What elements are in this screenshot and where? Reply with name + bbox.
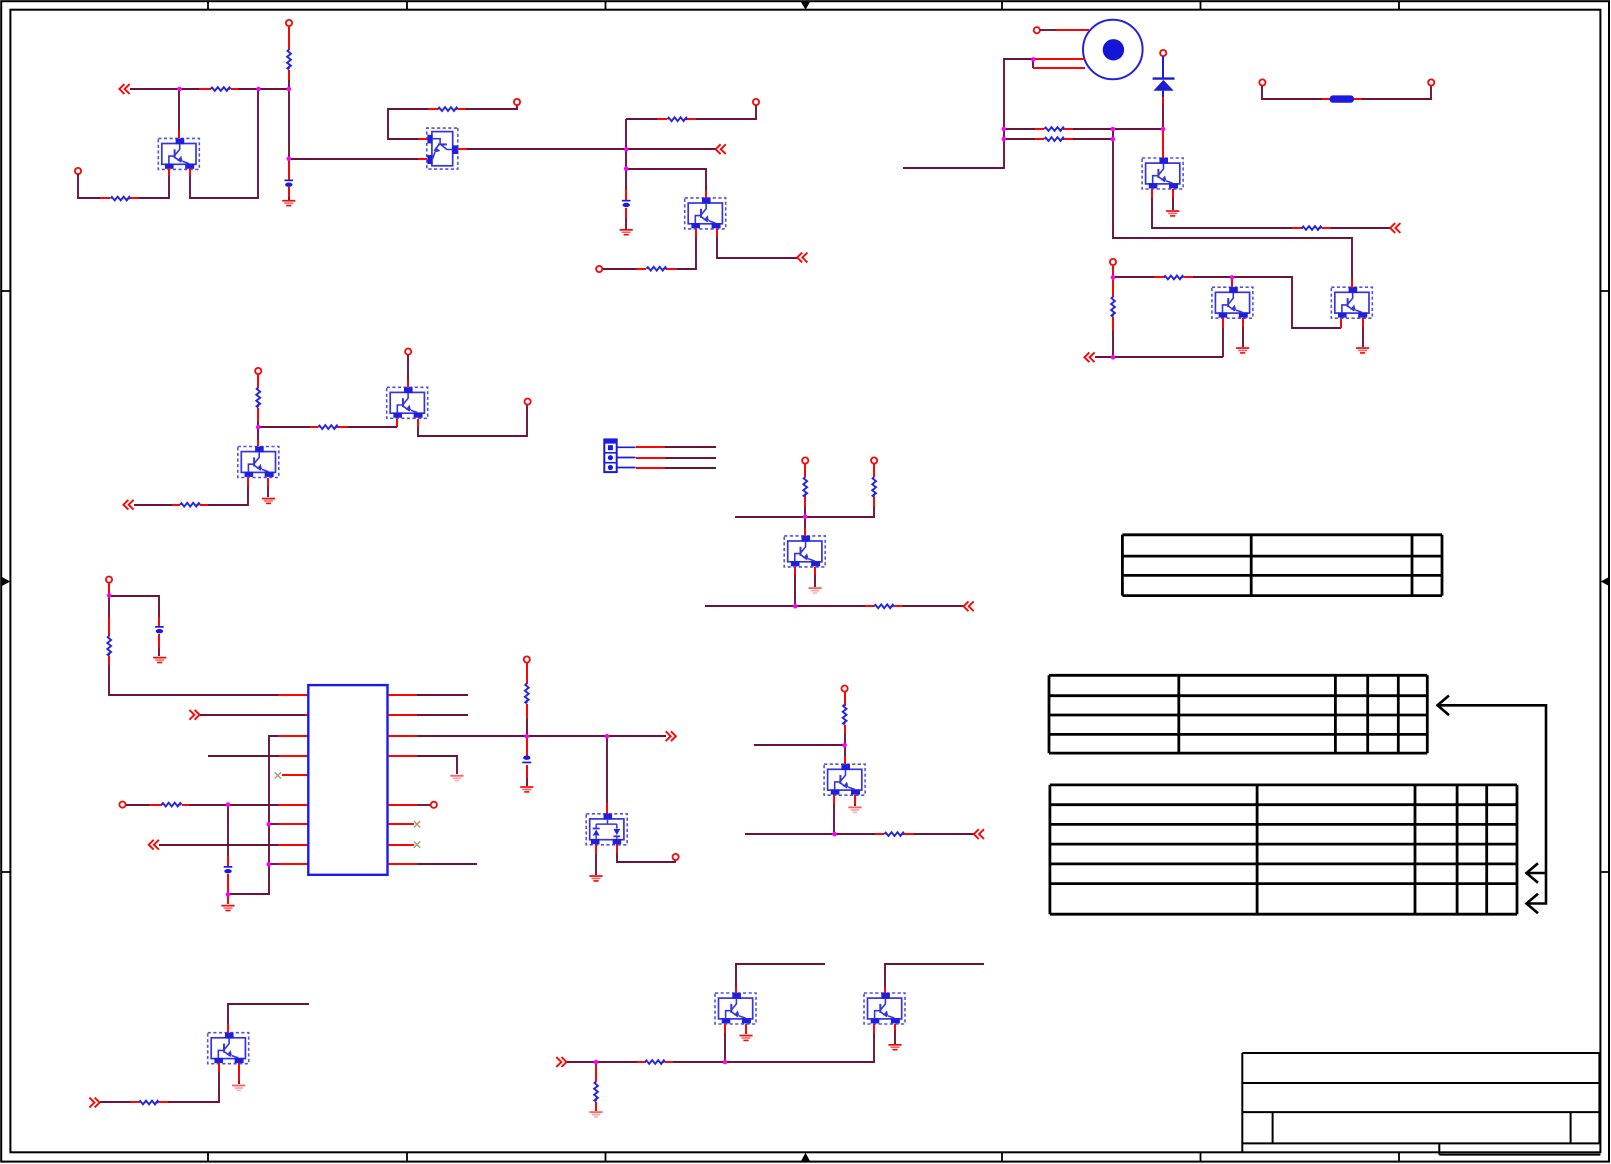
wire — [1113, 276, 1154, 278]
port P18 — [1160, 50, 1166, 56]
wire — [257, 421, 259, 427]
pin — [526, 663, 528, 684]
wire — [417, 735, 666, 737]
wire — [1113, 129, 1352, 279]
wire — [1040, 29, 1056, 31]
pin — [159, 1101, 168, 1103]
connector pin 2 — [617, 457, 636, 459]
motor M1 — [1083, 20, 1143, 80]
pin — [199, 88, 211, 90]
pin — [745, 1024, 747, 1034]
black pointer polyline from tables — [1438, 705, 1546, 903]
pin — [267, 478, 269, 487]
wire — [625, 119, 627, 189]
wire — [208, 487, 248, 505]
junction — [226, 892, 231, 897]
pin — [396, 419, 398, 427]
pin — [804, 497, 806, 507]
wire — [257, 427, 259, 440]
junction — [803, 514, 808, 519]
pin — [1354, 98, 1362, 100]
wire — [665, 457, 716, 459]
wire — [1004, 128, 1035, 130]
port P21 — [1110, 259, 1116, 265]
pin — [231, 88, 238, 90]
wire — [267, 487, 269, 497]
pin — [458, 148, 467, 150]
wire — [238, 88, 289, 90]
wire — [158, 648, 160, 656]
ground — [1356, 347, 1369, 354]
border centre arrow right — [1601, 577, 1609, 586]
lower table — [1050, 785, 1517, 914]
pin — [238, 1063, 240, 1081]
pin — [1222, 318, 1224, 328]
ground (pink) — [232, 1085, 245, 1092]
transistor Q2 (rotated) — [427, 128, 458, 169]
ground — [589, 875, 602, 882]
pin — [108, 656, 110, 665]
junction — [1031, 57, 1036, 62]
resistor R23 — [139, 1100, 159, 1104]
wire — [134, 504, 172, 506]
pin — [189, 168, 191, 176]
pin — [625, 189, 627, 200]
wire — [139, 176, 169, 198]
off-page connector left — [716, 144, 726, 154]
pin — [844, 756, 846, 764]
wire — [745, 833, 834, 835]
pin — [1322, 98, 1330, 100]
pin — [735, 987, 737, 993]
pin — [526, 704, 528, 718]
port P16 — [842, 686, 848, 692]
pin — [278, 735, 308, 737]
off-page connector left — [964, 601, 974, 611]
wire — [228, 1004, 309, 1024]
junction — [793, 604, 798, 609]
wire — [625, 218, 627, 229]
pin — [844, 692, 846, 706]
junction — [107, 593, 112, 598]
pin — [278, 714, 308, 716]
pin — [873, 497, 875, 507]
pin — [1292, 227, 1303, 229]
port P3 — [514, 99, 520, 105]
wire — [696, 105, 756, 119]
border zone ticks top — [208, 1, 1399, 10]
pin — [1351, 279, 1353, 288]
off-page connector left — [1084, 352, 1094, 362]
wire — [1362, 86, 1431, 99]
pin — [595, 1062, 597, 1082]
pin — [636, 268, 646, 270]
pin — [100, 197, 110, 199]
port P19 — [1259, 79, 1265, 85]
pin — [388, 844, 414, 846]
wire — [238, 1081, 240, 1084]
wire — [1262, 86, 1322, 99]
port P5 — [596, 266, 602, 272]
resistor R22 — [1111, 297, 1115, 317]
pin — [227, 1024, 229, 1033]
transistor Q10 — [1331, 287, 1372, 318]
pin — [1112, 317, 1114, 331]
port P13 — [673, 854, 679, 860]
wire — [914, 833, 974, 835]
wire — [567, 1061, 637, 1063]
diode D2 — [1153, 56, 1175, 97]
wire — [834, 833, 875, 835]
black arrowhead at lower table row6 — [1527, 894, 1539, 914]
junction — [1002, 127, 1007, 132]
ground — [1166, 210, 1179, 217]
wire — [159, 844, 278, 846]
port P9 — [106, 577, 112, 583]
transistor Q6 — [784, 536, 825, 567]
wire — [78, 174, 100, 198]
resistor R17 — [884, 832, 904, 836]
resistor R24 — [594, 1082, 598, 1102]
pin — [616, 844, 618, 853]
wire — [854, 804, 856, 806]
port P2 — [75, 168, 81, 174]
ground — [282, 200, 295, 207]
resistor R12 — [524, 684, 528, 704]
junction — [624, 147, 629, 152]
wire — [1032, 59, 1034, 68]
resistor R5 — [667, 117, 687, 121]
pin — [338, 426, 348, 428]
pin — [1162, 130, 1164, 158]
pin — [833, 795, 835, 804]
wire — [388, 109, 428, 139]
junction — [266, 822, 271, 827]
wire — [794, 575, 796, 606]
ground — [153, 657, 166, 664]
off-page connector left — [1390, 223, 1400, 233]
wire — [407, 355, 409, 381]
port P20 — [1428, 79, 1434, 85]
pin — [278, 863, 308, 865]
resistor R1 — [211, 87, 231, 91]
port P17 — [1034, 27, 1040, 33]
pin — [875, 833, 884, 835]
port P15 — [871, 457, 877, 463]
wire — [348, 426, 397, 428]
transistor Q1 — [158, 138, 199, 169]
pin — [526, 765, 528, 778]
pin — [636, 467, 665, 469]
wire — [288, 197, 290, 200]
capacitor C1 — [285, 180, 294, 187]
pin — [388, 735, 417, 737]
wire — [903, 59, 1033, 168]
wire — [269, 823, 278, 825]
ground (pink) — [450, 775, 463, 782]
off-page connector left — [149, 840, 159, 850]
port P1 — [286, 20, 292, 26]
pin — [310, 426, 318, 428]
wire — [804, 517, 806, 528]
junction — [266, 862, 271, 867]
wire — [526, 718, 528, 736]
pin — [716, 229, 718, 237]
capacitor C5 — [522, 756, 531, 764]
wire — [168, 1072, 219, 1102]
wire — [178, 89, 180, 130]
pin — [687, 118, 696, 120]
pin — [1242, 318, 1244, 327]
off-page connector right — [189, 710, 199, 720]
pin — [282, 774, 308, 776]
pin — [1033, 67, 1085, 69]
pin — [1064, 138, 1073, 140]
pin — [1035, 58, 1085, 60]
wire — [665, 467, 716, 469]
pin — [873, 1024, 875, 1033]
pin — [388, 804, 417, 806]
wire — [269, 863, 278, 865]
pin — [804, 528, 806, 536]
border centre arrow bottom — [801, 1153, 810, 1161]
pin — [418, 158, 427, 160]
pin — [1362, 318, 1364, 327]
border zone ticks left — [1, 291, 10, 872]
transistor Q12 — [715, 993, 756, 1024]
pin — [724, 1024, 726, 1033]
transistor Q3 — [685, 198, 726, 229]
middle table — [1049, 675, 1427, 753]
ground (pink) — [809, 587, 822, 594]
pin — [526, 736, 528, 756]
pin — [278, 694, 308, 696]
wire — [1172, 198, 1174, 210]
wire — [1162, 104, 1164, 130]
pin — [278, 844, 308, 846]
pin — [130, 197, 139, 199]
pin — [388, 714, 417, 716]
no-connect x — [275, 772, 281, 778]
ground — [739, 1035, 752, 1042]
wire — [602, 268, 636, 270]
border zone ticks right — [1600, 291, 1609, 872]
pin — [428, 108, 438, 110]
wire — [894, 1030, 896, 1044]
pin — [108, 583, 110, 593]
pin — [657, 118, 667, 120]
capacitor C2 — [622, 200, 631, 207]
pin — [625, 208, 627, 218]
pin — [865, 605, 874, 607]
pin — [1154, 276, 1165, 278]
fuse F1 — [1330, 95, 1355, 102]
pin — [794, 567, 796, 575]
pin — [227, 894, 229, 904]
off-page connector left — [123, 500, 133, 510]
wire — [1331, 227, 1390, 229]
port P7 — [405, 349, 411, 355]
wire — [108, 593, 110, 596]
junction — [177, 87, 182, 92]
wire — [717, 237, 797, 258]
pin — [288, 159, 290, 180]
junction — [594, 1060, 599, 1065]
wire — [417, 714, 468, 716]
port P8 — [525, 399, 531, 405]
wire — [673, 1033, 874, 1062]
junction — [1002, 137, 1007, 142]
wire — [417, 863, 477, 865]
wire — [1152, 198, 1292, 228]
resistor R15 — [874, 604, 894, 608]
junction — [287, 87, 292, 92]
junction — [1111, 127, 1116, 132]
pin — [257, 440, 259, 446]
pin — [894, 1024, 896, 1030]
wire — [754, 744, 845, 746]
junction — [226, 802, 231, 807]
resistor R20 — [1302, 226, 1322, 230]
wire — [108, 596, 110, 617]
wire — [417, 804, 430, 806]
capacitor C3 — [155, 626, 164, 633]
pin — [1340, 318, 1342, 328]
pin — [418, 138, 427, 140]
off-page connector left — [974, 829, 984, 839]
wire — [735, 516, 805, 518]
wire — [288, 26, 290, 50]
pin — [1322, 227, 1331, 229]
wire — [1242, 327, 1244, 347]
pin — [894, 605, 903, 607]
wire — [1004, 138, 1035, 140]
port P10 — [119, 802, 125, 808]
wire — [258, 426, 310, 428]
port P14 — [802, 457, 808, 463]
junction — [1111, 275, 1116, 280]
ground (pink) — [848, 807, 861, 814]
wire — [844, 745, 846, 756]
port P12 — [524, 656, 530, 662]
off-page connector right — [556, 1057, 566, 1067]
wire — [418, 405, 527, 436]
wire — [130, 88, 199, 90]
pin — [278, 804, 308, 806]
pin — [637, 1061, 646, 1063]
off-page connector right — [89, 1098, 99, 1108]
transistor Q5 — [238, 446, 279, 477]
pin — [1064, 128, 1073, 130]
pin (vertical resistor top) — [1112, 277, 1114, 297]
resistor R10 — [107, 636, 111, 656]
dual diode D1 — [586, 814, 627, 845]
ground (pink) — [589, 1111, 602, 1118]
port P11 — [431, 802, 437, 808]
wire — [288, 80, 290, 89]
junction — [605, 734, 610, 739]
capacitor C4 — [224, 866, 233, 873]
wire — [1193, 277, 1341, 328]
pin — [257, 374, 259, 388]
junction — [1111, 355, 1116, 360]
off-page connector left — [797, 253, 807, 263]
wire — [804, 507, 806, 517]
port P6 — [255, 368, 261, 374]
ground — [262, 498, 275, 505]
pin — [227, 874, 229, 894]
wire — [705, 605, 795, 607]
pin — [854, 795, 856, 804]
ground — [520, 786, 533, 793]
resistor R13 — [803, 477, 807, 497]
pin — [388, 823, 414, 825]
junction — [624, 166, 629, 171]
wire — [417, 694, 468, 696]
title block — [1242, 1053, 1600, 1155]
pin — [636, 446, 665, 448]
junction — [256, 425, 261, 430]
wire — [805, 507, 874, 517]
pin — [884, 987, 886, 993]
pin — [278, 823, 308, 825]
pin — [1112, 266, 1114, 276]
wire — [467, 148, 716, 150]
pin — [149, 804, 162, 806]
pin — [158, 634, 160, 648]
wire — [189, 804, 278, 806]
wire — [595, 854, 597, 875]
revision table top right — [1122, 535, 1442, 596]
junction — [842, 743, 847, 748]
wire (pin3 feedback) — [229, 736, 278, 894]
resistor R8 — [318, 425, 338, 429]
IC U1 — [308, 685, 387, 875]
pin — [1056, 29, 1089, 31]
wire — [109, 665, 278, 695]
pin — [595, 1102, 597, 1111]
pin — [1162, 97, 1164, 104]
pin — [695, 229, 697, 237]
junction — [723, 1060, 728, 1065]
wire — [1362, 327, 1364, 347]
wire — [1073, 128, 1163, 130]
resistor R19 — [1044, 137, 1064, 141]
wire — [466, 105, 517, 109]
pin — [247, 478, 249, 487]
black arrowhead at lower table row5 — [1527, 863, 1539, 883]
pin — [388, 755, 417, 757]
pin — [1035, 128, 1044, 130]
pin — [158, 617, 160, 626]
transistor Q8 — [1142, 158, 1183, 189]
wire — [903, 605, 963, 607]
junction — [1161, 127, 1166, 132]
wire — [833, 804, 835, 834]
wire — [677, 237, 696, 269]
ground — [888, 1044, 901, 1051]
no-connect x — [414, 842, 420, 848]
wire — [227, 805, 229, 856]
port P4 — [753, 99, 759, 105]
pin — [417, 419, 419, 427]
pin — [182, 804, 189, 806]
wire — [617, 853, 675, 862]
pin — [178, 130, 180, 138]
wire — [289, 158, 418, 160]
resistor R3 — [111, 196, 131, 200]
wire — [1073, 138, 1113, 140]
